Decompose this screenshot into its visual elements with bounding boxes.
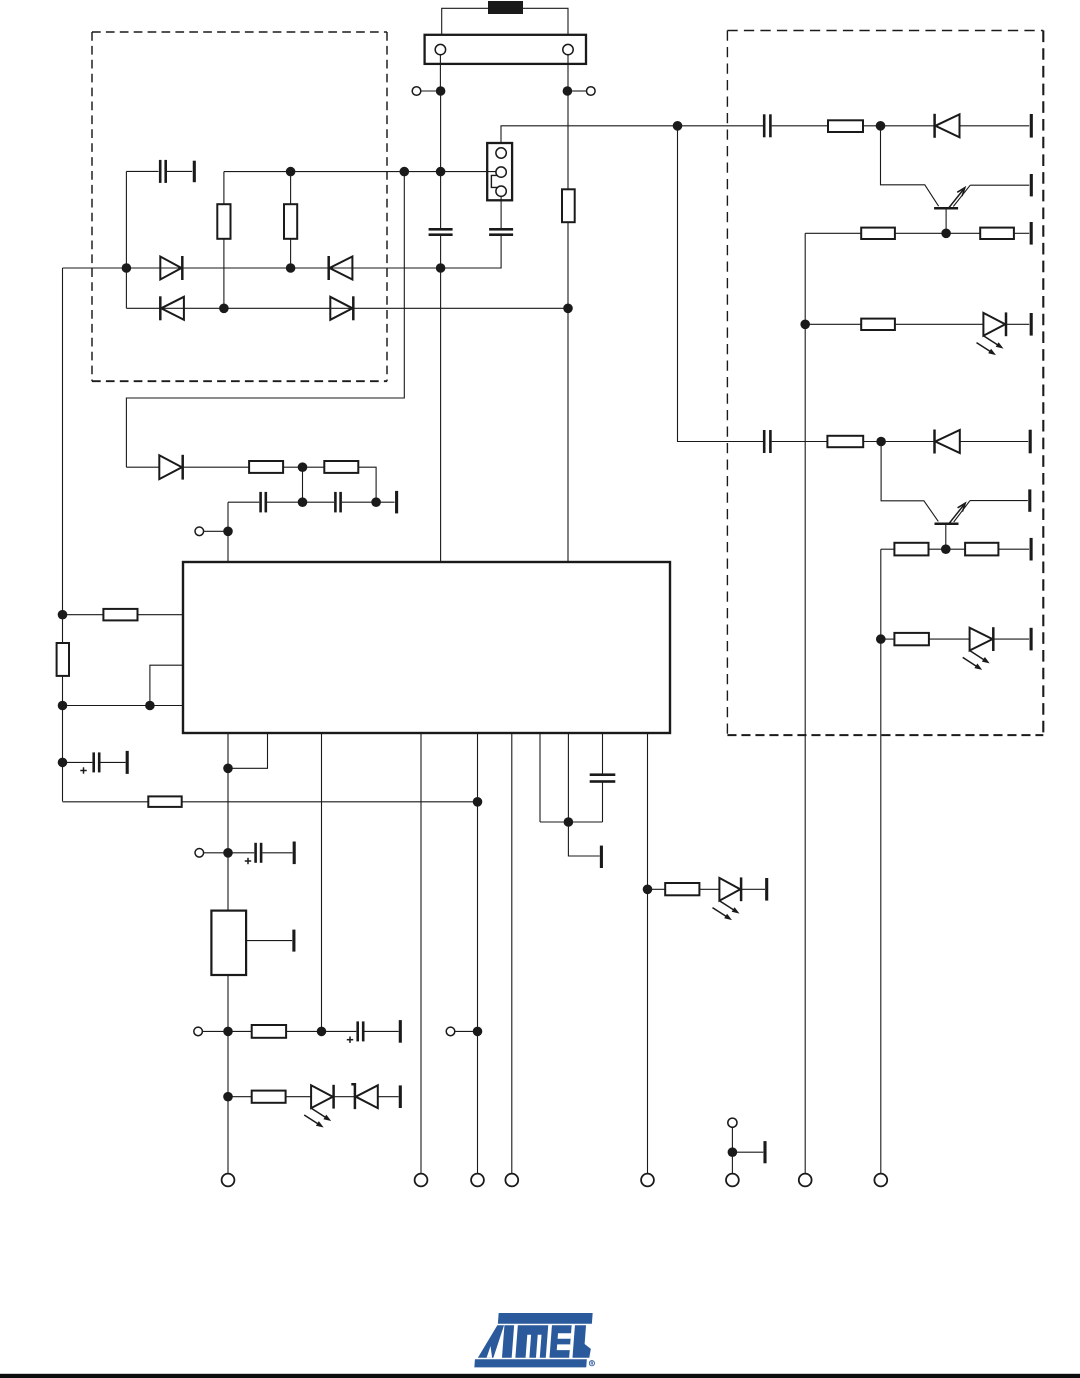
terminal bar TB3 (C6 return): [126, 751, 129, 774]
J2 pin 2: [496, 167, 506, 177]
Atmel logo: [474, 1313, 593, 1367]
resistor R6 (to U1 pin): [103, 609, 137, 621]
resistor R1 (left divider): [217, 204, 230, 239]
terminal X6 (sync test point): [446, 1027, 455, 1036]
resistor R2 (right divider): [284, 204, 297, 239]
terminal P_OUT4 (bottom x512): [505, 1174, 518, 1187]
wire LED4 row: [881, 638, 895, 640]
wire ZD1 to bar: [378, 1096, 399, 1098]
wire U1 pin x421 down: [420, 733, 422, 1174]
resistor R14 (ch1 pulldown): [980, 228, 1014, 239]
terminal bar TB14 (LED3 return): [1030, 313, 1033, 336]
terminal P_OUT3 (bottom x477): [471, 1174, 484, 1187]
wire ch2 base row left: [881, 548, 895, 550]
wire R2 top lead: [290, 172, 292, 205]
wire X4 stub: [204, 852, 225, 854]
wire ch2 rail down: [880, 549, 882, 1173]
capacitor C3 (under jumper): [489, 228, 513, 231]
terminal bar TB5 (wiper return): [292, 930, 295, 952]
wire U1 pin x512 down: [511, 733, 513, 1174]
wire cap row down to VDD node: [227, 502, 229, 562]
node left-rail/C6 junction: [58, 758, 68, 768]
wire gnd row y822: [540, 821, 603, 823]
wire X1 stub: [421, 90, 437, 92]
terminal bar TB18 (LED4 return): [1030, 628, 1033, 651]
wire Q2 emitter to bar: [970, 500, 1028, 502]
wire node C to Q2 collector: [881, 442, 938, 522]
terminal bar TB4 (C7 return): [293, 842, 296, 865]
capacitor C6 (electrolytic, left rail): [63, 761, 93, 763]
wire HV node to IR receiver section: [501, 126, 763, 148]
C7 polarity mark: [245, 860, 251, 862]
terminal strip J1 (mains input block): [425, 35, 586, 64]
wire R1 bottom lead: [223, 239, 225, 308]
terminal bar TB15 (ch2 line): [1029, 430, 1032, 454]
wire D5 to R4: [183, 466, 249, 468]
terminal bar TB16 (ch2 emitter): [1028, 489, 1031, 511]
wire C3 to row1 node: [441, 235, 502, 268]
wire R1 top lead: [223, 172, 225, 205]
J2 pin 1: [496, 148, 506, 158]
J1 pin 2: [563, 44, 573, 54]
wire gnd stub: [568, 822, 599, 856]
wire LED4 to bar: [993, 638, 1029, 640]
wire R16 to node C: [863, 441, 934, 443]
wire stub to bar: [736, 1151, 763, 1153]
node bias/x477 junction: [473, 797, 483, 807]
wire fuse left lead: [442, 8, 488, 35]
C8 polarity mark: [347, 1039, 353, 1041]
terminal P_OUT2 (bottom x421): [415, 1174, 428, 1187]
transistor Q1 (ch1 driver): [934, 207, 958, 210]
jumper block J2 (3-pin header): [487, 143, 512, 200]
wire LED1 to ZD1: [334, 1096, 355, 1098]
wire R10 to LED1: [286, 1096, 312, 1098]
resistor R5 (supply filter): [324, 461, 358, 473]
node left-rail/R6 junction: [58, 610, 68, 620]
node L junction: [436, 86, 446, 96]
terminal X4 (reference test point): [195, 849, 204, 858]
resistor R10 (LED series): [252, 1091, 286, 1103]
terminal bar TB10 (aux return): [763, 1141, 766, 1163]
wire U1 pin x647 down: [647, 733, 649, 1174]
terminal bar TB7 (LED return): [399, 1085, 402, 1108]
node N junction: [563, 86, 573, 96]
wire left rail lower: [62, 676, 64, 802]
diode D7 (ch2 clamp): [935, 430, 960, 453]
wire LED3 to bar: [1006, 323, 1029, 325]
node sense/R2 junction: [286, 167, 296, 177]
wire D7 to bar: [960, 441, 1028, 443]
wire bridge row2: [126, 307, 568, 309]
node x228/y768 junction: [223, 764, 233, 774]
wire node A down to second channel: [678, 126, 764, 442]
wire feedback to U1 pins: [63, 705, 184, 707]
wire bias line to node: [182, 801, 478, 803]
dashed box: mains interface network: [92, 31, 387, 33]
wire R5 to corner: [358, 467, 376, 502]
wire X3 stub: [204, 530, 225, 532]
wire R12 to node B: [863, 125, 935, 127]
wire R14 to bar: [1014, 232, 1029, 234]
terminal X3 (VDD test point): [195, 527, 204, 536]
terminal bar TB6 (C8 return): [399, 1020, 402, 1043]
wire P1 wiper: [246, 940, 292, 942]
node gnd row junction: [564, 817, 574, 827]
wire sense node down and across: [126, 172, 404, 468]
node C (ch2 drive node): [876, 437, 886, 447]
wire U1 pin x477 down: [477, 733, 479, 1174]
node x228/y1031 junction: [223, 1027, 233, 1037]
wire R15 to LED3: [895, 323, 984, 325]
terminal P_OUT6 (bottom x732): [726, 1174, 739, 1187]
wire Q1 emitter to bar: [970, 184, 1029, 186]
wire bias line y802: [63, 801, 149, 803]
terminal bar TB2 (filter return): [395, 491, 398, 514]
wire rail N upper (node N to R3): [567, 91, 569, 189]
wire R17 to base node: [929, 548, 966, 550]
terminal P_OUT7 (bottom x805): [799, 1174, 812, 1187]
J1 pin 1: [435, 44, 445, 54]
resistor R15 (LED3 series): [861, 319, 895, 330]
wire ch1 base row left: [805, 232, 861, 234]
LED LED1 (status): [311, 1085, 333, 1108]
terminal bar TB1 (C1 return): [193, 161, 196, 183]
op-amp U1 (mains controller IC): [183, 562, 670, 733]
diode D4 (bridge, row2 right): [330, 297, 352, 320]
wire U1 pin x540 down to gnd row: [539, 733, 541, 822]
wire R6 right lead to U1: [138, 614, 184, 616]
J2 pin 3: [496, 186, 506, 196]
wire X5 row to R9: [228, 1030, 252, 1032]
resistor R11 (LED2 series): [665, 883, 699, 895]
resistor R4 (supply filter): [249, 461, 283, 473]
wire node B to Q1 collector: [881, 126, 939, 206]
wire U1 pin x602 down to C9: [602, 733, 604, 775]
node x647/y889 junction: [643, 885, 653, 895]
wire R2 bottom lead: [290, 239, 292, 268]
terminal bar TB17 (ch2 base ret): [1030, 538, 1033, 561]
wire node to R11: [648, 888, 666, 890]
jumper shunt J2 pins 2-3: [491, 175, 497, 187]
wire rail L upper (node L down to cap C2): [440, 91, 442, 229]
node rail-L / wire-172 junction: [436, 167, 446, 177]
dashed box: output driver channels: [727, 30, 1043, 32]
node cap row mid: [298, 497, 308, 507]
wire node to R10: [228, 1096, 252, 1098]
resistor R16 (ch2 series): [827, 436, 863, 447]
resistor R19 (LED4 series): [894, 633, 929, 645]
node x477/y1031 junction: [473, 1027, 483, 1037]
wire R11 to LED2: [699, 888, 719, 890]
fuse F1 (mains fuse, filled body): [488, 1, 523, 14]
node VDD: [223, 527, 233, 537]
diode D5 (supply rectifier): [159, 455, 182, 479]
node rail-N / row2 junction: [563, 304, 573, 314]
wire J1 pin2 down to node N: [567, 55, 569, 91]
wire Q2 base down: [945, 524, 947, 549]
capacitor C10 (ch1 coupling): [763, 114, 766, 137]
terminal bar TB12 (ch1 emitter): [1030, 174, 1033, 196]
diode D1 (bridge, row1 left): [160, 257, 181, 280]
wire P1 bottom to terminal row: [227, 975, 229, 1174]
wire J1 pin1 down to node L: [439, 55, 441, 91]
C6 polarity mark: [80, 770, 86, 772]
wire U1 pin x228 down: [227, 733, 229, 911]
capacitor C2 (on rail L): [429, 228, 453, 231]
capacitor C11 (ch2 coupling): [763, 430, 766, 453]
LED LED4 (ch2 indicator): [970, 628, 993, 651]
resistor R13 (ch1 base): [861, 228, 895, 239]
wire U1 pin x321 down: [321, 733, 323, 1031]
diode D6 (ch1 clamp): [935, 114, 959, 137]
wire filter mid link: [302, 467, 304, 502]
wire X7 down to terminal: [731, 1127, 733, 1173]
resistor R7 (left rail): [57, 643, 69, 676]
potentiometer P1 (trim): [211, 911, 246, 975]
wire C1 to bar: [167, 170, 192, 172]
wire R19 to LED4: [929, 638, 970, 640]
wire LED3 row: [805, 323, 861, 325]
node supply filter mid: [298, 462, 308, 472]
wire step-up to U1 second pin: [150, 665, 183, 705]
capacitor C7 (electrolytic, reference): [232, 852, 254, 854]
wire U1 pin x568 down: [567, 733, 569, 822]
node ch2 base node: [941, 544, 951, 554]
wire U1 pin x267 step to node: [232, 733, 268, 768]
wire row1-row2 left link: [125, 268, 127, 308]
capacitor C8 (electrolytic, adjust): [322, 1030, 357, 1032]
wire fuse right lead: [523, 8, 568, 35]
ground bar TB8: [600, 846, 603, 868]
wire C10 to R12: [772, 125, 828, 127]
wire bridge row1: [63, 267, 441, 269]
LED LED3 (ch1 indicator): [983, 313, 1005, 336]
wire ch1 rail down: [804, 233, 806, 1173]
node sense/x404 junction: [400, 167, 410, 177]
terminal bar TB9 (LED2 return): [765, 878, 768, 901]
node x321/y1031 junction: [317, 1027, 327, 1037]
wire C11 to R16: [772, 441, 828, 443]
wire sense line y172: [224, 171, 496, 173]
capacitor C5 (filter): [334, 492, 337, 513]
transistor Q2 (ch2 driver): [935, 523, 959, 526]
capacitor C9 (decoupling): [590, 773, 616, 776]
node x228/y1096 junction: [223, 1092, 233, 1102]
node feedback/step junction: [145, 701, 155, 711]
terminal P_OUT5 (bottom x647): [641, 1174, 654, 1187]
capacitor C4 (filter): [259, 492, 262, 513]
wire rail L lower (C2 to IC pin): [440, 235, 442, 562]
footer rule: [0, 1374, 1080, 1378]
node cap row right: [371, 497, 381, 507]
wire R6 left lead: [63, 614, 104, 616]
resistor R17 (ch2 base): [894, 543, 928, 556]
LED LED2 (mid status): [719, 878, 740, 901]
node B (ch1 drive node): [876, 121, 886, 131]
wire cap row y502: [228, 501, 259, 503]
resistor R8 (bias): [148, 796, 181, 807]
diode D2 (bridge, row1 right): [330, 257, 353, 280]
wire C9 to gnd row: [602, 782, 604, 823]
wire X6 stub: [455, 1030, 474, 1032]
terminal P_OUT8 (bottom x880): [874, 1174, 887, 1187]
wire R13 to base node: [895, 232, 980, 234]
terminal bar TB11 (ch1 line): [1030, 114, 1033, 138]
capacitor C1 (X-cap stub): [126, 170, 158, 172]
resistor R12 (ch1 series): [828, 120, 863, 132]
wire R18 to bar: [998, 548, 1029, 550]
wire C5 to bar: [342, 501, 395, 503]
wire D6 to bar: [960, 125, 1030, 127]
terminal X2 (neutral test point): [587, 87, 596, 96]
node rail-L / row1 junction: [436, 263, 446, 273]
terminal X5 (adjust input): [194, 1027, 203, 1036]
wire X5 stub: [202, 1030, 224, 1032]
wire J2 pin3 to cap C3: [500, 196, 502, 229]
diode D3 (bridge, row2 left): [161, 297, 184, 320]
node left-rail feedback junction: [58, 701, 68, 711]
node row1/x126 junction: [122, 263, 132, 273]
node ch1 base node: [941, 229, 951, 239]
wire to D5: [126, 466, 159, 468]
node row1/R2 junction: [286, 263, 296, 273]
node X7 stub junction: [728, 1147, 738, 1157]
wire LED2 to bar: [741, 888, 765, 890]
node A (x677.5 on HV wire): [673, 121, 683, 131]
resistor R18 (ch2 pulldown): [965, 543, 998, 556]
node ch2 LED node: [876, 634, 886, 644]
wire R9 to node x321: [286, 1030, 321, 1032]
resistor R3 (dropper on rail N): [562, 189, 575, 222]
wire Q1 base down: [945, 208, 947, 233]
zener ZD1 (clamp): [351, 1084, 355, 1109]
terminal bar TB13 (ch1 base ret): [1030, 222, 1033, 245]
wire C1 stub down to row1: [125, 171, 127, 268]
wire X2 stub: [571, 90, 586, 92]
node row2/R1 junction: [219, 304, 229, 314]
wire R4 to R5: [283, 466, 324, 468]
node ch1 LED node: [800, 320, 810, 330]
wire rail N lower (R3 to IC pin): [567, 222, 569, 562]
terminal P_OUT1 (bottom x228): [222, 1174, 235, 1187]
node x228/y852 junction: [223, 848, 233, 858]
wire C4 to C5: [267, 501, 334, 503]
wire left rail upper (row1 to R7): [62, 268, 64, 643]
terminal X7 (aux input): [728, 1118, 737, 1127]
resistor R9 (adjust series): [252, 1025, 286, 1038]
terminal X1 (line test point): [412, 87, 421, 96]
